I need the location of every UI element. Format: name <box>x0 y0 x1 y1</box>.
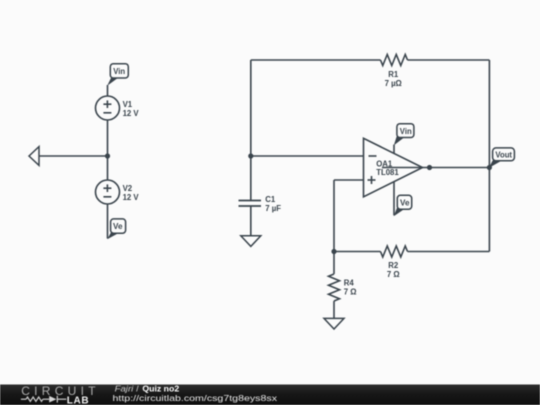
wire V1-to-V2 <box>107 120 109 180</box>
wire top feedback right lead <box>408 59 490 61</box>
wire left vertical (C1 branch) <box>250 60 252 200</box>
junction dot output <box>427 165 432 170</box>
svg-text:12 V: 12 V <box>123 109 140 118</box>
node arrow (left terminal) <box>29 147 39 166</box>
svg-text:C1: C1 <box>265 195 276 204</box>
junction dot node R2/R4 <box>331 249 336 254</box>
svg-text:R1: R1 <box>388 70 399 79</box>
junction dot node Vin/V2 <box>105 153 110 158</box>
svg-text:7 Ω: 7 Ω <box>344 288 357 297</box>
junction dot Vout <box>487 165 492 170</box>
wire R4-to-ground <box>333 301 335 318</box>
wire non-inverting horizontal <box>334 179 364 181</box>
wire right vertical <box>488 60 490 252</box>
svg-text:Vin: Vin <box>113 67 125 76</box>
wire R2 left lead <box>334 251 381 253</box>
flag Vin (op-amp V+) <box>394 124 414 146</box>
wire R2 right lead <box>408 251 490 253</box>
svg-text:Vin: Vin <box>400 127 412 136</box>
svg-text:http://circuitlab.com/csg7tg8e: http://circuitlab.com/csg7tg8eys8sx <box>113 393 279 403</box>
svg-text:7 Ω: 7 Ω <box>387 270 400 279</box>
wire inverting input <box>251 155 364 157</box>
svg-text:7 µF: 7 µF <box>265 204 281 213</box>
resistor R2 <box>381 246 408 279</box>
flag Vin (left source) <box>107 64 128 86</box>
svg-text:12 V: 12 V <box>123 193 140 202</box>
wire output <box>382 167 489 169</box>
ground (below C1) <box>241 236 261 247</box>
svg-text:7 µΩ: 7 µΩ <box>385 79 402 88</box>
flag Ve (op-amp V-) <box>394 195 412 216</box>
wire non-inverting vertical <box>333 180 335 274</box>
svg-text:R2: R2 <box>388 261 399 270</box>
logo resistor-diode glyph <box>21 396 66 403</box>
wire C1-to-ground <box>250 206 252 236</box>
svg-text:R4: R4 <box>344 278 355 287</box>
flag Ve (left source) <box>107 219 125 239</box>
op-amp OA1 <box>364 138 423 197</box>
svg-text:Vout: Vout <box>495 151 512 160</box>
svg-text:TL081: TL081 <box>376 168 399 177</box>
svg-text:Ve: Ve <box>113 222 123 231</box>
svg-text:V2: V2 <box>123 184 133 193</box>
junction dot node C1 <box>248 153 253 158</box>
svg-text:Ve: Ve <box>400 198 410 207</box>
wire to left arrow <box>39 155 108 157</box>
pin V+ stub <box>393 145 395 154</box>
pin V- stub <box>393 182 395 216</box>
resistor R4 <box>329 274 357 301</box>
flag Vout <box>489 148 515 168</box>
voltage source V2 <box>96 180 140 204</box>
wire V2-to-Ve flag <box>107 204 109 239</box>
wire top feedback left lead <box>251 59 381 61</box>
ground (below R4) <box>324 318 344 329</box>
capacitor C1 <box>239 195 282 213</box>
footer bar <box>0 385 540 405</box>
svg-text:LAB: LAB <box>67 395 89 405</box>
wire flag-to-V1 <box>107 85 109 96</box>
resistor R1 <box>381 55 408 88</box>
voltage source V1 <box>96 96 140 120</box>
footer title line <box>115 384 180 394</box>
svg-text:V1: V1 <box>123 100 133 109</box>
